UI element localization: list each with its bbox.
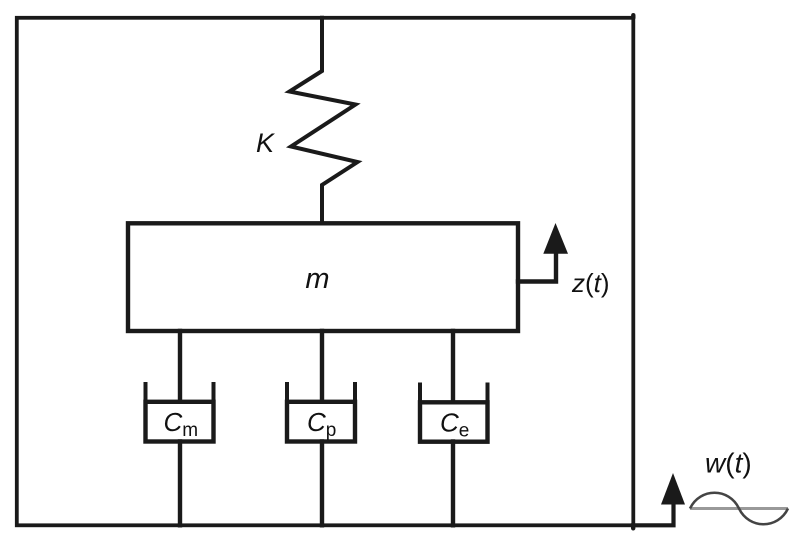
svg-text:w(t): w(t) bbox=[705, 448, 752, 479]
svg-text:K: K bbox=[256, 128, 275, 158]
svg-text:m: m bbox=[305, 263, 329, 295]
svg-text:z(t): z(t) bbox=[571, 268, 610, 298]
svg-text:Cp: Cp bbox=[307, 407, 336, 441]
svg-text:Ce: Ce bbox=[440, 408, 469, 442]
svg-text:Cm: Cm bbox=[164, 407, 199, 441]
